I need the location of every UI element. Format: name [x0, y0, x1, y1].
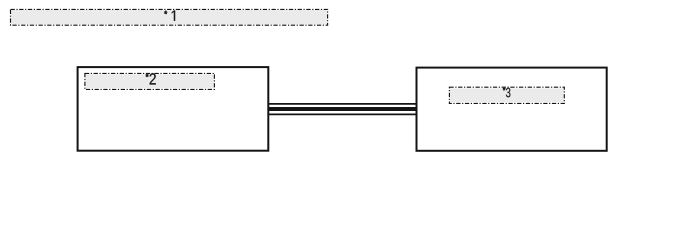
- label *3 text: [503, 88, 505, 91]
- label *2 text: [146, 74, 149, 77]
- cable: thick middle conductor: [268, 107, 417, 111]
- label box *1: [11, 9, 328, 25]
- label box *2: [85, 73, 215, 89]
- label box *3: [449, 87, 564, 103]
- cable: lower conductor: [268, 113, 417, 115]
- label *1 text: [164, 11, 167, 14]
- device box left: [78, 67, 269, 151]
- cable: upper conductor: [268, 103, 417, 105]
- device box right: [417, 68, 607, 151]
